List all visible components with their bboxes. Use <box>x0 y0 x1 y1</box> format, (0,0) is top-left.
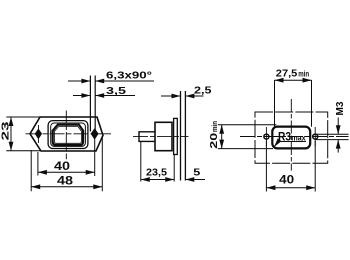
dimension 40 cutout: right extension line <box>314 141 316 192</box>
svg-text:23: 23 <box>0 121 12 140</box>
dimension 40 front: left extension line <box>37 152 39 176</box>
dimension 5: leader with arrow <box>185 179 205 181</box>
dimension M3: lower leader with arrow <box>337 140 339 153</box>
dimension 48: right extension line <box>101 138 103 192</box>
panel cutout view: cutout rounded rectangle <box>272 127 310 149</box>
dimension 2,5: left leader with arrow <box>161 95 181 97</box>
panel cutout view: vertical centerline <box>290 99 292 171</box>
dimension 40 front: dimension line <box>38 171 95 173</box>
dimension 48: left extension line <box>30 150 32 191</box>
front view: vertical centerline <box>65 111 67 160</box>
svg-text:2,5: 2,5 <box>194 85 212 97</box>
front view: socket inner line <box>54 127 81 144</box>
svg-text:20: 20 <box>208 133 220 149</box>
dimension 27,5min: dimension line <box>275 79 312 81</box>
dimension 40 cutout: left extension line <box>265 141 267 192</box>
front view: recess inner lip <box>51 123 86 146</box>
svg-text:max: max <box>291 133 306 142</box>
panel cutout view: right mounting hole <box>313 134 318 139</box>
side view: pin <box>139 132 155 142</box>
right hole vertical tick <box>314 127 316 146</box>
dimension 20min: bottom extension line <box>218 148 273 150</box>
dimension 6,3x90: right leader with arrow <box>95 80 154 82</box>
svg-text:3,5: 3,5 <box>106 85 126 97</box>
dimension 6,3x90: left leader with arrow <box>68 80 90 82</box>
dimension M3: upper leader with arrow <box>337 118 339 135</box>
svg-text:6,3x90°: 6,3x90° <box>106 70 152 82</box>
callout 6,3x90 extension lines <box>89 76 91 132</box>
dimension 2,5: right leader with arrow <box>185 95 203 97</box>
svg-text:23,5: 23,5 <box>146 167 167 179</box>
svg-text:M3: M3 <box>335 101 346 115</box>
dimension 3,5: left leader with arrow <box>73 95 90 97</box>
dimension 27,5min: left extension line <box>274 80 276 127</box>
dimension 20min: top extension line <box>218 124 276 126</box>
svg-text:48: 48 <box>57 173 73 187</box>
svg-text:5: 5 <box>193 167 200 179</box>
front view: horizontal centerline <box>26 133 112 135</box>
dimension 23,5: dimension line <box>141 179 174 181</box>
dimension 23: top extension line <box>6 116 40 118</box>
front view: socket opening (chamfered top corners) <box>53 125 83 145</box>
front view: left mounting hole (countersunk diamond) <box>35 129 41 138</box>
side view: horizontal centerline <box>133 136 189 138</box>
side view: panel wall lines <box>180 91 182 181</box>
front view: right mounting hole (countersunk diamond) <box>91 129 98 139</box>
side view: body rectangle <box>155 122 172 150</box>
panel cutout view: horizontal centerline <box>240 136 349 138</box>
front view: recess outer rounded rect <box>48 121 88 149</box>
panel cutout view: left mounting hole <box>264 134 269 139</box>
left hole vertical tick <box>265 127 267 146</box>
side view: collar disc <box>174 118 178 154</box>
R3max leader arrow to corner radius <box>274 142 278 147</box>
dimension 23,5: right extension line (collar face) <box>173 155 175 182</box>
svg-text:40: 40 <box>279 173 294 187</box>
dimension 40 cutout: dimension line <box>266 187 315 189</box>
front view: left hole vertical centerline <box>38 125 40 143</box>
R3max underline <box>278 141 306 143</box>
svg-text:min: min <box>298 70 309 79</box>
dimension 40 front: right extension line <box>94 139 96 176</box>
svg-text:min: min <box>210 121 219 132</box>
dimension 20min: vertical dimension line <box>221 125 223 149</box>
dimension 23: vertical dimension line with arrows <box>10 117 12 151</box>
svg-text:40: 40 <box>54 159 70 173</box>
dimension 23: bottom extension line <box>6 150 41 152</box>
dimension 48: dimension line <box>31 186 102 188</box>
dimension 23,5: left extension line (pin tip) <box>140 142 142 182</box>
dimension 3,5: right leader with arrow <box>95 95 135 97</box>
dimension M3: tangent lines from right hole <box>316 133 349 135</box>
svg-text:27,5: 27,5 <box>276 69 298 80</box>
front view: flange hexagon outline <box>30 117 103 151</box>
dimension 27,5min: right extension line <box>311 80 313 127</box>
panel cutout view: outer panel rectangle (dashed) <box>255 112 328 163</box>
